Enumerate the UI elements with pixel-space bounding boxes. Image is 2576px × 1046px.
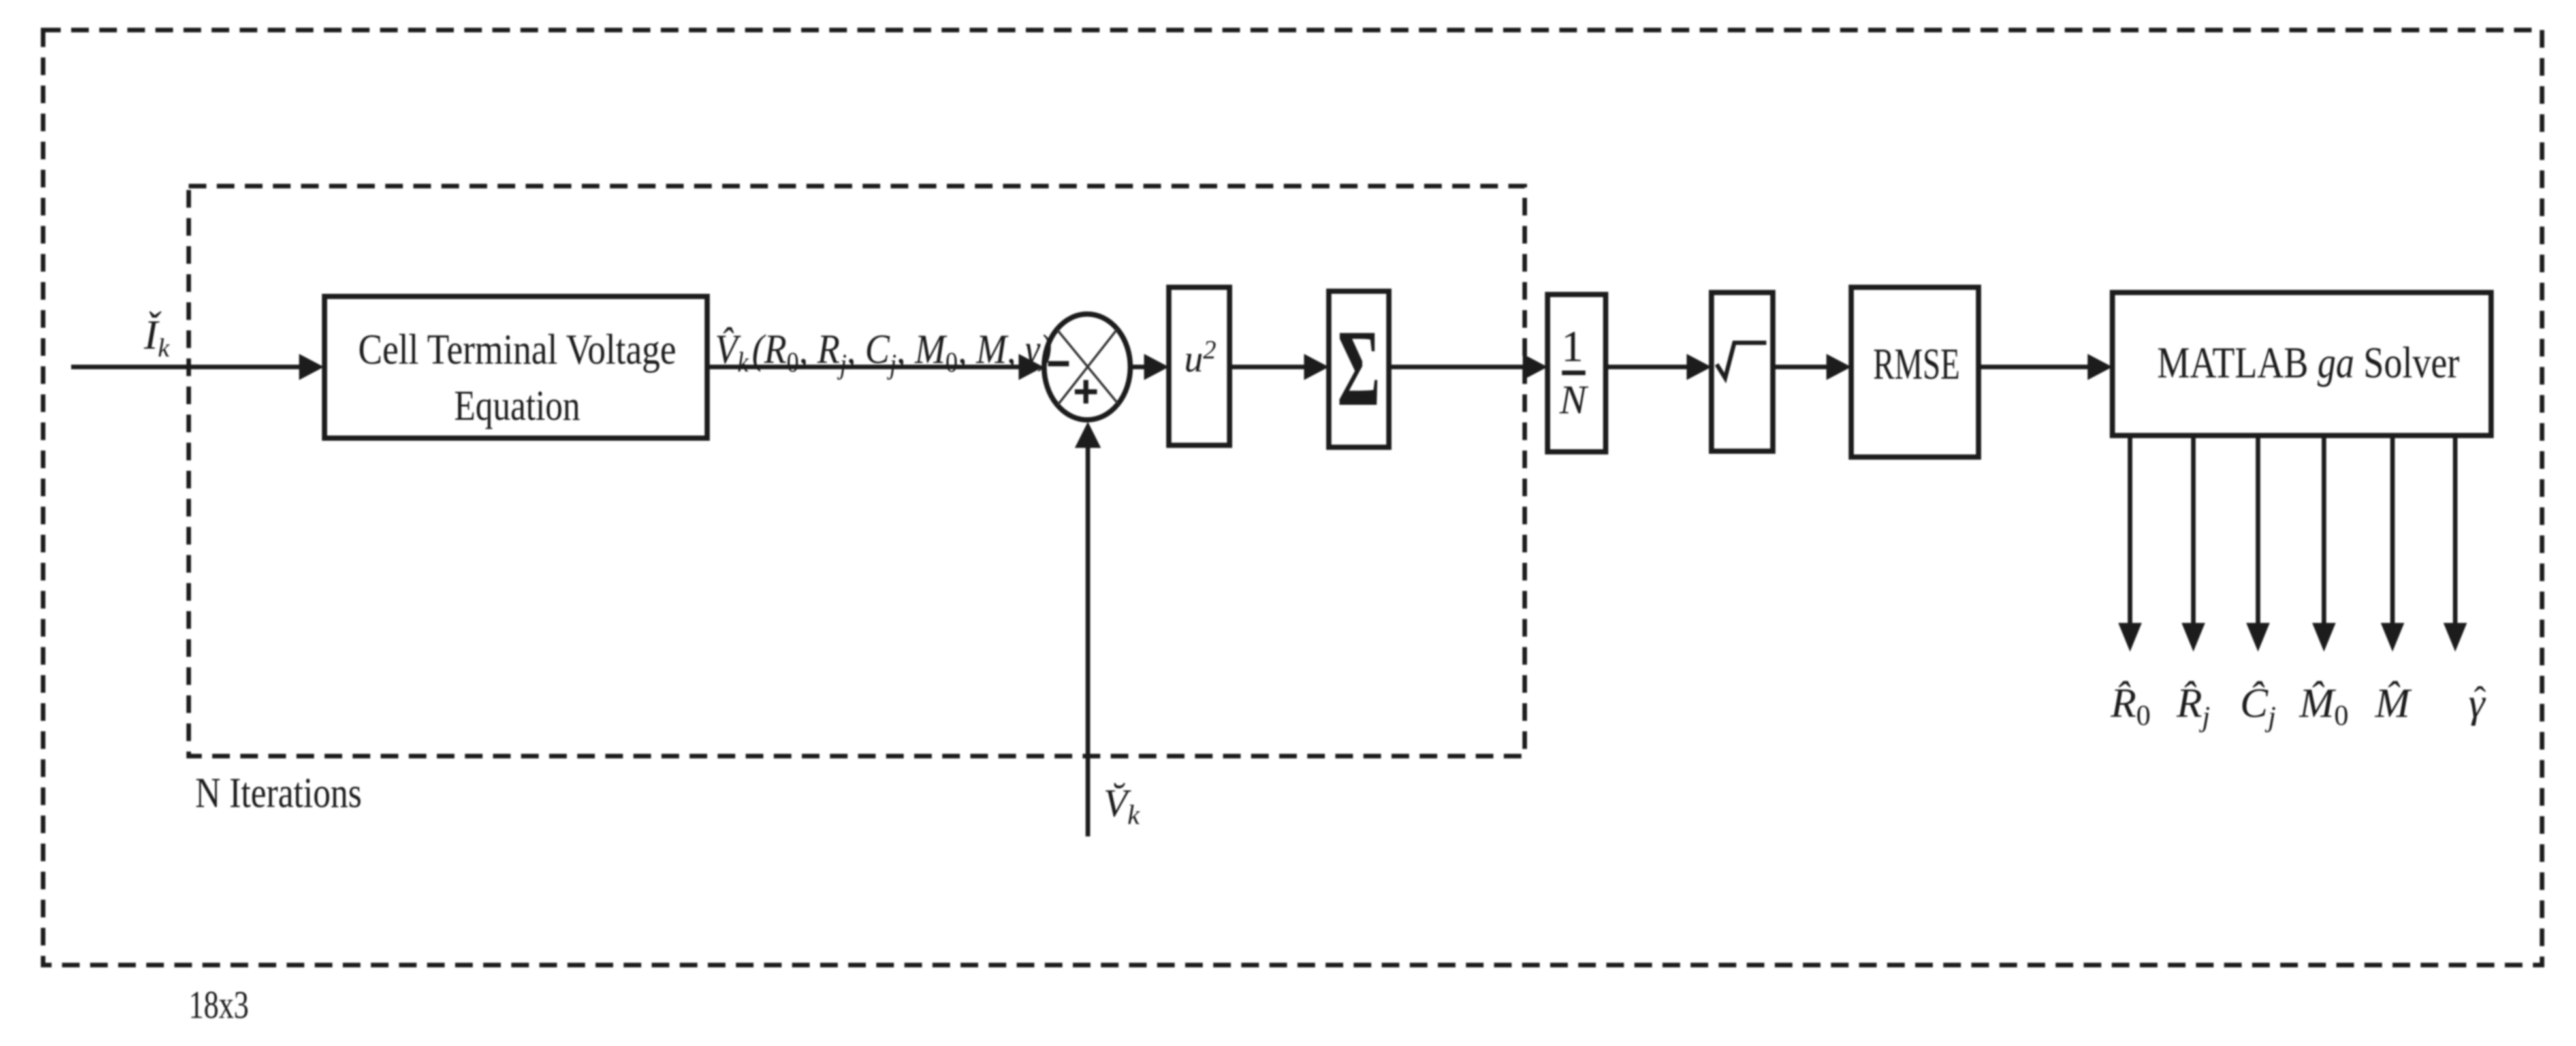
inner dashed N-iterations box — [189, 186, 1525, 756]
svg-text:M̂: M̂ — [2374, 680, 2412, 726]
wire: solver output Rj hat — [2191, 436, 2196, 626]
summing junction diagonal X — [1057, 330, 1118, 404]
node label V_k(R0,Rj,Cj,M0,M,gamma) — [715, 326, 1052, 380]
block: summation sigma — [1329, 291, 1389, 447]
wire: 1/N to square root — [1606, 365, 1688, 370]
wire: square root to RMSE — [1773, 365, 1828, 370]
wire: solver output M hat — [2391, 436, 2395, 626]
wire: input current into Cell Terminal Voltage Equation — [71, 365, 302, 370]
svg-text:1: 1 — [1561, 321, 1583, 371]
svg-text:18x3: 18x3 — [189, 983, 249, 1026]
wire: solver output gamma hat — [2453, 436, 2458, 626]
wire: sigma to 1/N — [1389, 365, 1524, 370]
svg-text:N Iterations: N Iterations — [195, 769, 362, 817]
wire: solver output M0 hat — [2322, 436, 2327, 626]
block: 1/N averaging — [1548, 294, 1606, 452]
svg-text:V̂k(R0, Rj, Cj, M0, M, γ): V̂k(R0, Rj, Cj, M0, M, γ) — [715, 326, 1052, 380]
svg-text:N: N — [1559, 378, 1589, 422]
wire: cell equation output to summing junction — [707, 365, 1020, 370]
svg-text:Σ: Σ — [1337, 308, 1380, 429]
svg-text:RMSE: RMSE — [1873, 339, 1960, 388]
wire: u^2 to sigma summation — [1230, 365, 1305, 370]
wire: measured voltage V_k up into summing junction — [1086, 447, 1090, 836]
minus sign — [1048, 361, 1069, 366]
wire: RMSE to MATLAB ga solver — [1979, 365, 2089, 370]
square root glyph — [1717, 343, 1766, 378]
wire: solver output R0 hat — [2128, 436, 2133, 626]
block: Cell Terminal Voltage Equation — [325, 296, 707, 438]
plus sign — [1075, 389, 1097, 394]
block: RMSE — [1851, 287, 1979, 457]
summing junction — [1044, 314, 1130, 420]
wire: summing junction to u^2 — [1130, 365, 1145, 370]
svg-text:Equation: Equation — [454, 382, 580, 430]
svg-text:MATLAB ga Solver: MATLAB ga Solver — [2157, 338, 2460, 387]
wire: solver output Cj hat — [2256, 436, 2261, 626]
svg-text:ˆ: ˆ — [2474, 680, 2487, 720]
block: MATLAB ga Solver — [2112, 293, 2491, 436]
block: square root — [1711, 293, 1773, 451]
block: u^2 squaring — [1169, 287, 1230, 445]
svg-text:Cell Terminal Voltage: Cell Terminal Voltage — [358, 326, 676, 373]
